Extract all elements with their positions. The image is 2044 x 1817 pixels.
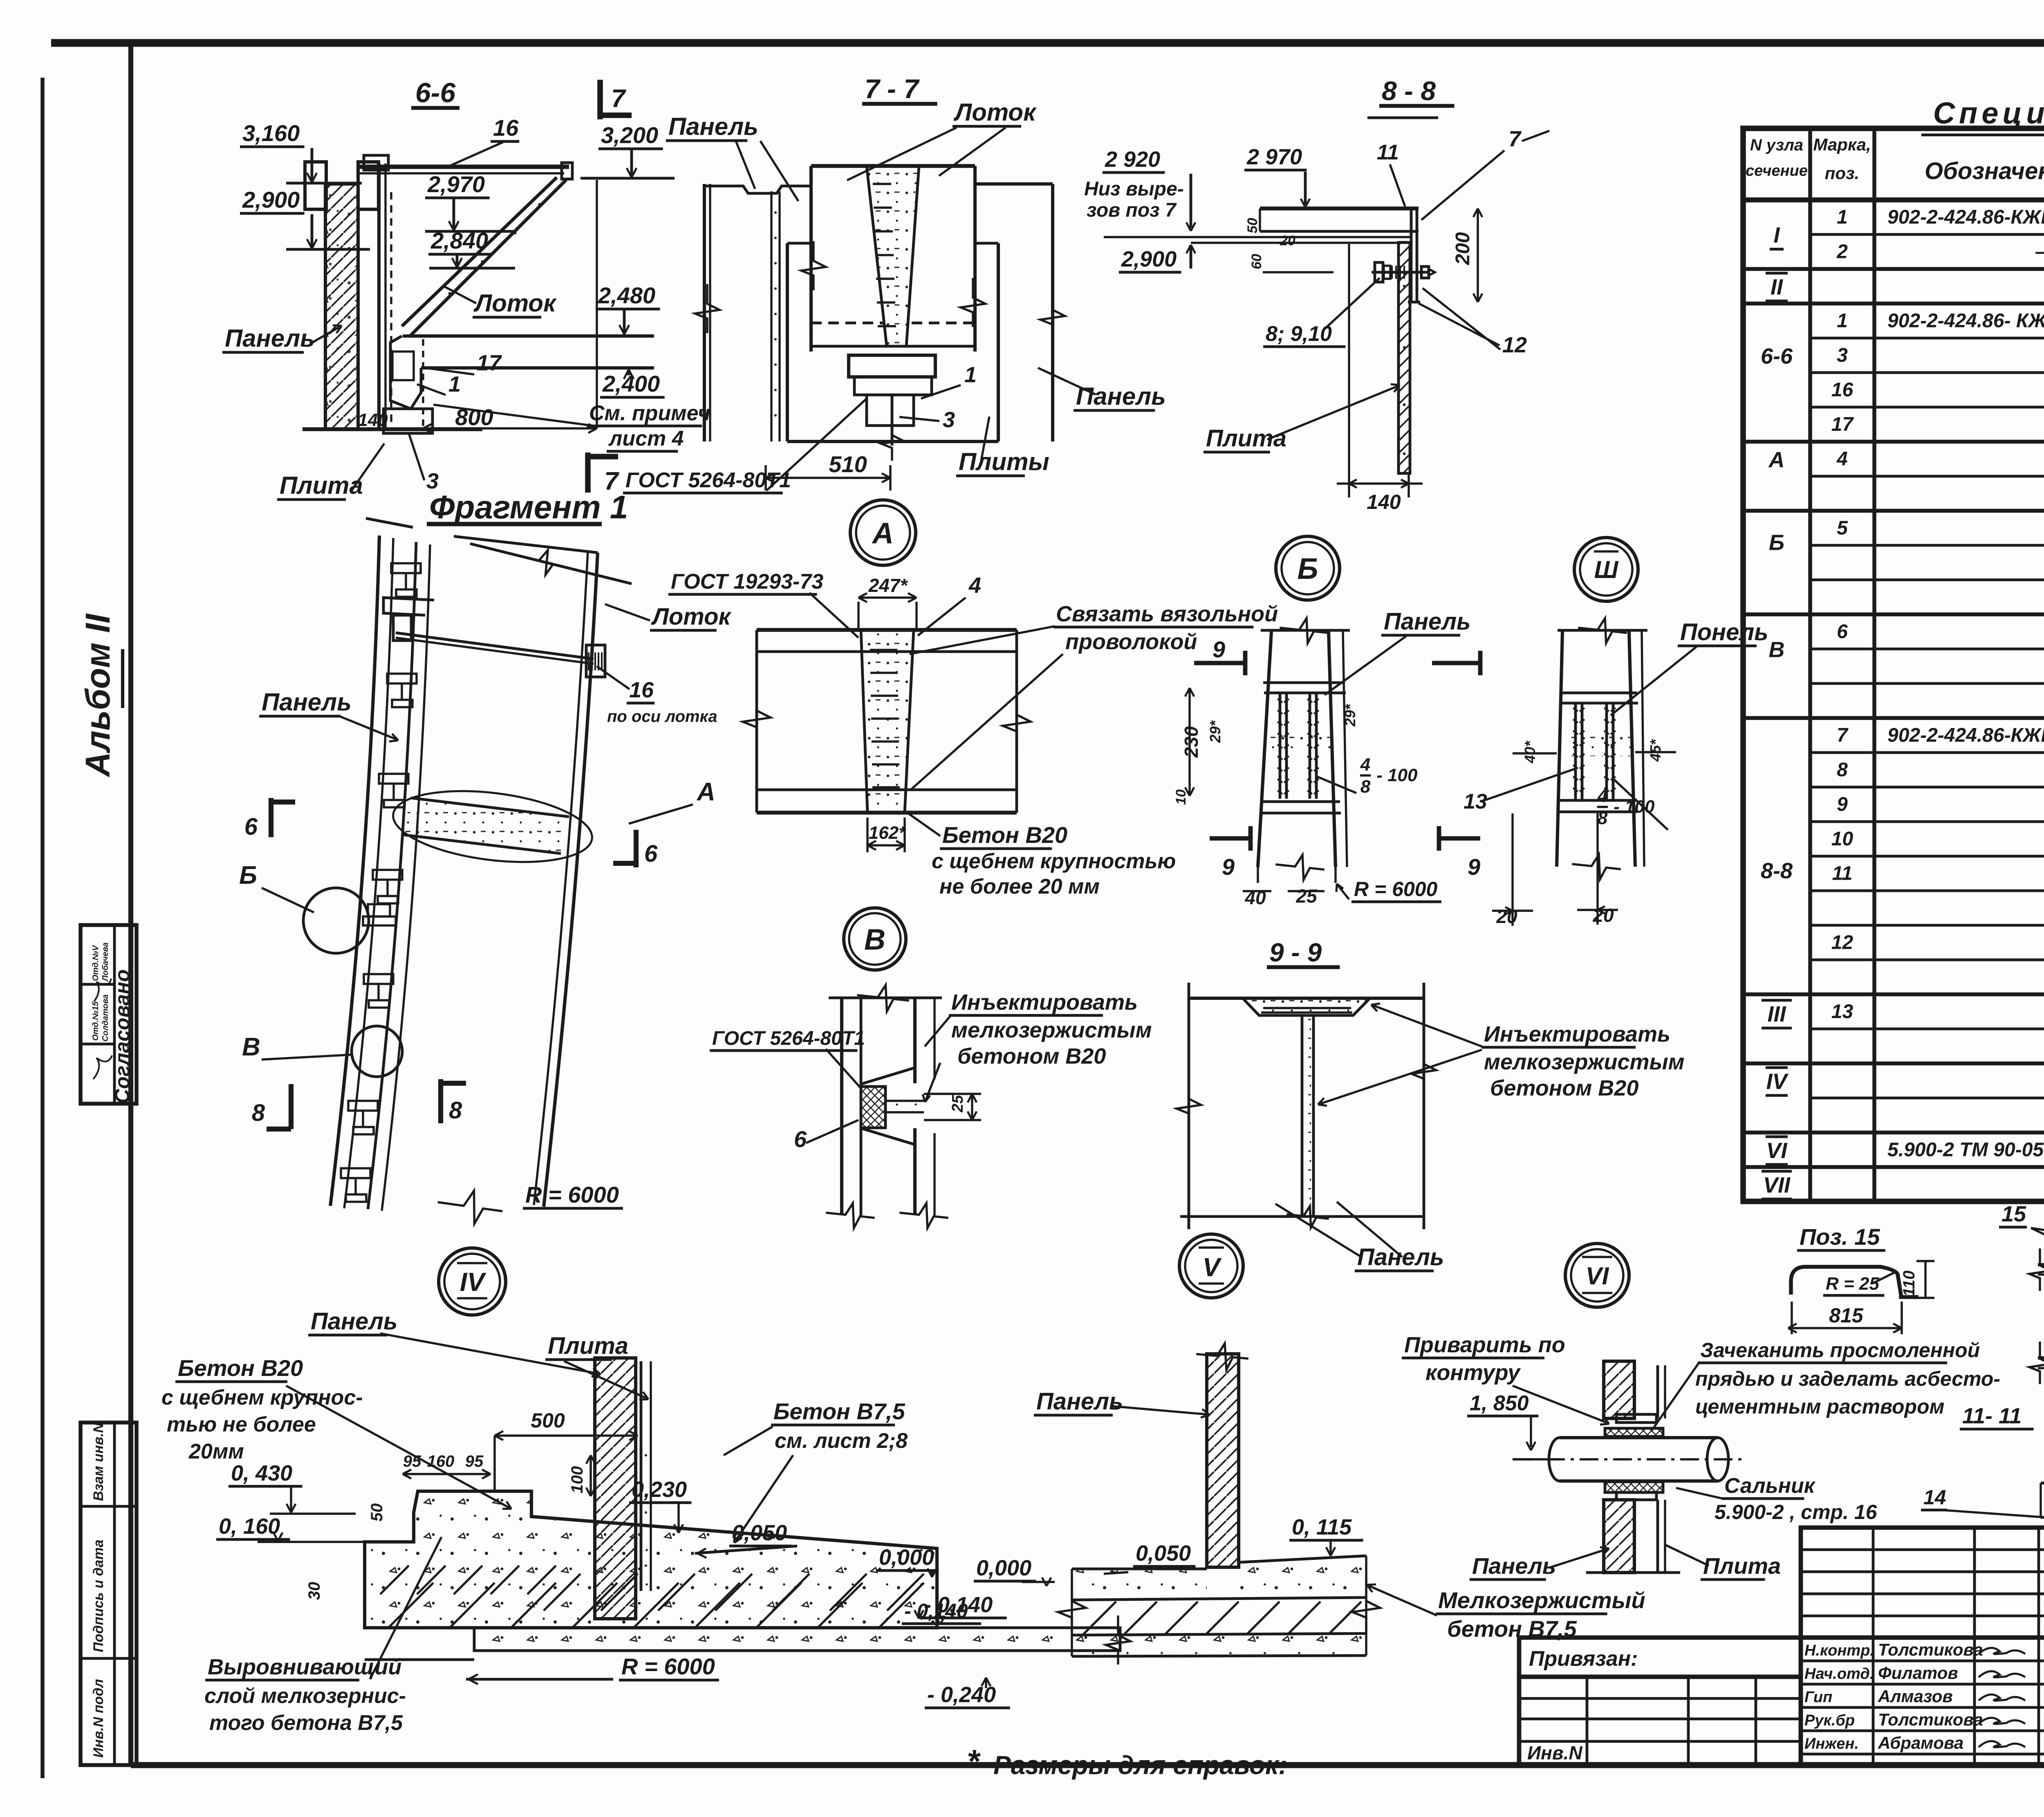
svg-text:Алмазов: Алмазов bbox=[1878, 1687, 1953, 1706]
svg-text:230: 230 bbox=[1181, 726, 1202, 758]
svg-text:9: 9 bbox=[1468, 854, 1480, 880]
svg-text:6-6: 6-6 bbox=[415, 77, 456, 108]
svg-text:2,900: 2,900 bbox=[242, 187, 300, 213]
svg-text:2,900: 2,900 bbox=[1121, 247, 1177, 271]
svg-text:Толстикова: Толстикова bbox=[1878, 1640, 1983, 1659]
svg-text:16: 16 bbox=[629, 678, 654, 702]
svg-text:мелкозержистым: мелкозержистым bbox=[951, 1018, 1152, 1042]
svg-text:25: 25 bbox=[949, 1095, 966, 1113]
svg-text:11: 11 bbox=[1832, 863, 1853, 885]
svg-text:VI: VI bbox=[1766, 1138, 1787, 1163]
svg-text:100: 100 bbox=[568, 1466, 586, 1494]
svg-text:8 - 8: 8 - 8 bbox=[1382, 76, 1436, 106]
svg-text:поз.: поз. bbox=[1825, 164, 1859, 183]
svg-text:тью не более: тью не более bbox=[167, 1413, 316, 1436]
svg-text:29*: 29* bbox=[1207, 720, 1224, 743]
svg-text:16: 16 bbox=[493, 115, 519, 141]
svg-text:R = 6000: R = 6000 bbox=[621, 1653, 715, 1679]
svg-text:Панель: Панель bbox=[262, 688, 352, 716]
svg-text:ГОСТ 5264-80Т1: ГОСТ 5264-80Т1 bbox=[625, 468, 791, 492]
svg-text:Поз. 15: Поз. 15 bbox=[1800, 1224, 1880, 1250]
svg-text:N узла: N узла bbox=[1750, 136, 1803, 154]
svg-text:3: 3 bbox=[1837, 345, 1848, 366]
svg-text:0,050: 0,050 bbox=[1136, 1541, 1191, 1566]
svg-text:R = 6000: R = 6000 bbox=[1354, 878, 1438, 901]
svg-text:Взам инв.N: Взам инв.N bbox=[91, 1422, 106, 1501]
svg-text:Связать вязольной: Связать вязольной bbox=[1056, 602, 1278, 626]
svg-text:Б: Б bbox=[1298, 553, 1318, 585]
svg-text:мелкозержистым: мелкозержистым bbox=[1484, 1050, 1685, 1074]
svg-text:11- 11: 11- 11 bbox=[1962, 1404, 2022, 1428]
svg-text:247*: 247* bbox=[868, 575, 908, 596]
svg-text:того бетона В7,5: того бетона В7,5 bbox=[209, 1711, 403, 1735]
svg-text:4: 4 bbox=[968, 573, 981, 598]
svg-text:110: 110 bbox=[1900, 1270, 1918, 1297]
svg-text:Панель: Панель bbox=[225, 325, 315, 352]
svg-text:10: 10 bbox=[1831, 828, 1853, 850]
svg-text:2 970: 2 970 bbox=[1246, 145, 1302, 169]
svg-text:60: 60 bbox=[1249, 254, 1264, 269]
svg-text:- 0,140: - 0,140 bbox=[904, 1600, 968, 1622]
svg-text:Отд.№15: Отд.№15 bbox=[91, 1001, 100, 1041]
svg-text:Плита: Плита bbox=[1206, 425, 1286, 452]
svg-text:ГОСТ 5264-80Т1: ГОСТ 5264-80Т1 bbox=[712, 1028, 865, 1049]
svg-text:ГОСТ 19293-73: ГОСТ 19293-73 bbox=[671, 570, 823, 594]
svg-text:20: 20 bbox=[1496, 906, 1517, 927]
svg-text:6: 6 bbox=[794, 1126, 807, 1152]
svg-text:Инв.N: Инв.N bbox=[1527, 1742, 1582, 1763]
svg-text:7 - 7: 7 - 7 bbox=[865, 74, 920, 104]
svg-text:Сальник: Сальник bbox=[1724, 1474, 1816, 1498]
svg-text:VI: VI bbox=[1586, 1262, 1609, 1290]
svg-text:I: I bbox=[1773, 223, 1780, 248]
svg-text:17: 17 bbox=[1831, 414, 1854, 435]
svg-text:7: 7 bbox=[1508, 127, 1522, 151]
svg-text:3,160: 3,160 bbox=[242, 120, 300, 146]
svg-text:См. примеч: См. примеч bbox=[589, 401, 710, 425]
svg-text:сечение: сечение bbox=[1746, 162, 1808, 179]
svg-text:7: 7 bbox=[611, 85, 626, 113]
svg-text:6: 6 bbox=[244, 813, 258, 840]
svg-text:Лоток: Лоток bbox=[953, 99, 1037, 126]
svg-text:Н.контр.: Н.контр. bbox=[1804, 1642, 1874, 1659]
svg-text:Приварить по: Приварить по bbox=[1404, 1333, 1565, 1357]
svg-text:Бетон В20: Бетон В20 bbox=[178, 1355, 303, 1381]
svg-text:Б: Б bbox=[1769, 531, 1784, 555]
svg-text:13: 13 bbox=[1831, 1001, 1853, 1023]
svg-text:Альбом II: Альбом II bbox=[78, 613, 117, 777]
svg-text:7: 7 bbox=[1837, 725, 1849, 746]
svg-text:8: 8 bbox=[1598, 808, 1608, 828]
svg-text:Плита: Плита bbox=[280, 472, 363, 499]
svg-text:6: 6 bbox=[644, 840, 658, 867]
svg-text:4: 4 bbox=[1360, 755, 1370, 775]
svg-text:слой мелкозернис-: слой мелкозернис- bbox=[204, 1684, 406, 1708]
svg-text:с щебнем крупнос-: с щебнем крупнос- bbox=[161, 1386, 363, 1409]
svg-text:В: В bbox=[864, 923, 885, 956]
svg-text:1: 1 bbox=[1837, 206, 1848, 228]
svg-text:6: 6 bbox=[1837, 621, 1848, 643]
svg-text:0, 115: 0, 115 bbox=[1292, 1515, 1352, 1539]
svg-text:160: 160 bbox=[427, 1452, 455, 1470]
svg-text:12: 12 bbox=[1502, 333, 1527, 357]
svg-text:8: 8 bbox=[1837, 759, 1848, 781]
svg-text:20мм: 20мм bbox=[188, 1440, 244, 1463]
svg-text:45*: 45* bbox=[1647, 739, 1664, 762]
svg-text:Бетон В7,5: Бетон В7,5 bbox=[773, 1398, 905, 1424]
svg-text:2: 2 bbox=[1836, 241, 1848, 263]
svg-text:Низ выре-: Низ выре- bbox=[1084, 178, 1184, 200]
svg-text:8: 8 bbox=[1360, 777, 1371, 797]
svg-text:Панель: Панель bbox=[1036, 1388, 1123, 1415]
svg-text:IV: IV bbox=[460, 1267, 487, 1297]
svg-text:902-2-424.86-КЖИ-6.100: 902-2-424.86-КЖИ-6.100 bbox=[1887, 725, 2044, 746]
svg-text:902-2-424.86-КЖИ-8.100: 902-2-424.86-КЖИ-8.100 bbox=[1887, 206, 2044, 228]
svg-text:0,000: 0,000 bbox=[879, 1545, 934, 1570]
svg-text:5: 5 bbox=[1837, 518, 1848, 539]
svg-text:11: 11 bbox=[1377, 141, 1399, 164]
svg-text:Рук.бр: Рук.бр bbox=[1804, 1712, 1855, 1729]
svg-text:20: 20 bbox=[1280, 233, 1295, 249]
svg-text:В: В bbox=[1769, 638, 1785, 662]
svg-text:бетон В7,5: бетон В7,5 bbox=[1447, 1616, 1577, 1642]
svg-text:1, 850: 1, 850 bbox=[1470, 1391, 1529, 1415]
svg-text:500: 500 bbox=[531, 1409, 565, 1432]
svg-text:проволокой: проволокой bbox=[1065, 630, 1197, 654]
svg-text:с щебнем крупностью: с щебнем крупностью bbox=[932, 849, 1176, 873]
svg-text:*: * bbox=[968, 1743, 981, 1779]
svg-text:Панель: Панель bbox=[1357, 1244, 1444, 1270]
svg-text:2,970: 2,970 bbox=[427, 171, 485, 197]
svg-text:3: 3 bbox=[943, 408, 955, 432]
svg-text:Спецификация элементов: Спецификация элементов bbox=[1933, 96, 2044, 130]
svg-text:Марка,: Марка, bbox=[1813, 135, 1871, 154]
svg-text:162*: 162* bbox=[869, 823, 906, 843]
svg-text:6-6: 6-6 bbox=[1761, 344, 1793, 368]
svg-text:бетоном В20: бетоном В20 bbox=[1490, 1076, 1638, 1100]
svg-text:30: 30 bbox=[305, 1582, 323, 1600]
svg-text:Панель: Панель bbox=[1472, 1553, 1556, 1579]
svg-text:14: 14 bbox=[1923, 1486, 1946, 1509]
svg-text:Филатов: Филатов bbox=[1878, 1663, 1958, 1683]
svg-text:0, 430: 0, 430 bbox=[231, 1461, 292, 1485]
svg-text:15: 15 bbox=[2001, 1202, 2026, 1226]
svg-text:200: 200 bbox=[1452, 232, 1474, 265]
svg-text:Б: Б bbox=[239, 861, 257, 889]
svg-text:–7.100-01: –7.100-01 bbox=[2035, 241, 2044, 263]
svg-text:510: 510 bbox=[829, 451, 867, 477]
svg-text:Панель: Панель bbox=[1384, 608, 1471, 635]
svg-text:V: V bbox=[1203, 1252, 1222, 1282]
svg-text:7: 7 bbox=[604, 467, 619, 495]
svg-text:Гип: Гип bbox=[1804, 1689, 1832, 1706]
svg-text:50: 50 bbox=[368, 1503, 386, 1522]
svg-text:140: 140 bbox=[358, 410, 388, 430]
svg-text:9: 9 bbox=[1837, 794, 1848, 816]
svg-text:Размеры для справок:: Размеры для справок: bbox=[993, 1750, 1287, 1780]
svg-text:2 920: 2 920 bbox=[1105, 147, 1160, 172]
svg-text:Отд.№V: Отд.№V bbox=[91, 945, 100, 981]
svg-text:Бетон В20: Бетон В20 bbox=[942, 822, 1067, 848]
svg-text:А: А bbox=[696, 778, 715, 806]
svg-text:1: 1 bbox=[448, 372, 461, 397]
svg-text:В: В bbox=[242, 1033, 260, 1061]
svg-text:Ш: Ш bbox=[1594, 556, 1619, 583]
svg-text:95: 95 bbox=[465, 1452, 484, 1470]
svg-text:1: 1 bbox=[1837, 310, 1848, 332]
svg-text:зов поз 7: зов поз 7 bbox=[1087, 199, 1177, 221]
svg-text:прядью и заделать асбесто-: прядью и заделать асбесто- bbox=[1695, 1367, 2000, 1390]
svg-text:Панель: Панель bbox=[311, 1308, 398, 1335]
svg-text:R = 25: R = 25 bbox=[1826, 1274, 1879, 1294]
svg-text:Зачеканить просмоленной: Зачеканить просмоленной bbox=[1700, 1339, 1980, 1362]
svg-text:Привязан:: Привязан: bbox=[1529, 1647, 1638, 1671]
svg-text:5.900-2 ТМ 90-05: 5.900-2 ТМ 90-05 bbox=[1887, 1139, 2044, 1161]
svg-text:VII: VII bbox=[1763, 1173, 1791, 1197]
svg-text:Нач.отд.: Нач.отд. bbox=[1804, 1665, 1874, 1683]
svg-text:17: 17 bbox=[477, 351, 502, 375]
svg-text:2,480: 2,480 bbox=[598, 282, 655, 308]
svg-text:по оси лотка: по оси лотка bbox=[607, 708, 717, 726]
svg-text:IV: IV bbox=[1766, 1069, 1788, 1094]
svg-text:Панель: Панель bbox=[1076, 383, 1166, 410]
svg-text:0,230: 0,230 bbox=[632, 1477, 687, 1502]
svg-text:Лоток: Лоток bbox=[651, 603, 732, 630]
svg-text:контуру: контуру bbox=[1425, 1360, 1521, 1385]
svg-text:Мелкозержистый: Мелкозержистый bbox=[1438, 1587, 1645, 1613]
svg-text:Плита: Плита bbox=[548, 1333, 628, 1359]
svg-text:4: 4 bbox=[1597, 786, 1607, 806]
svg-text:2,840: 2,840 bbox=[430, 228, 488, 253]
svg-text:см. лист 2;8: см. лист 2;8 bbox=[775, 1429, 908, 1453]
svg-text:9 - 9: 9 - 9 bbox=[1269, 938, 1322, 967]
svg-text:815: 815 bbox=[1829, 1304, 1864, 1327]
svg-text:II: II bbox=[1771, 275, 1783, 299]
svg-text:12: 12 bbox=[1831, 932, 1853, 954]
svg-text:29*: 29* bbox=[1342, 703, 1358, 727]
svg-text:16: 16 bbox=[1831, 379, 1853, 401]
svg-text:Понель: Понель bbox=[1680, 619, 1768, 645]
svg-text:1: 1 bbox=[964, 363, 977, 387]
svg-text:8-8: 8-8 bbox=[1761, 858, 1793, 883]
svg-text:Плиты: Плиты bbox=[959, 448, 1049, 475]
svg-text:Инв.N подл: Инв.N подл bbox=[91, 1679, 106, 1758]
svg-text:5.900-2 , стр. 16: 5.900-2 , стр. 16 bbox=[1715, 1501, 1878, 1524]
svg-text:А: А bbox=[1768, 448, 1785, 472]
svg-text:3,200: 3,200 bbox=[601, 122, 658, 148]
svg-text:140: 140 bbox=[1367, 491, 1401, 513]
svg-text:Плита: Плита bbox=[1703, 1553, 1781, 1579]
svg-text:10: 10 bbox=[1173, 789, 1189, 805]
svg-text:Согласовано: Согласовано bbox=[111, 969, 134, 1104]
svg-text:III: III bbox=[1767, 1002, 1786, 1026]
svg-text:А: А bbox=[872, 517, 894, 550]
svg-text:Инжен.: Инжен. bbox=[1804, 1735, 1859, 1752]
svg-text:бетоном В20: бетоном В20 bbox=[957, 1044, 1106, 1069]
svg-text:4: 4 bbox=[1836, 448, 1848, 470]
svg-text:Инъектировать: Инъектировать bbox=[1484, 1022, 1670, 1046]
svg-text:Солдатова: Солдатова bbox=[101, 995, 110, 1042]
svg-text:9: 9 bbox=[1222, 854, 1235, 880]
svg-text:9: 9 bbox=[1213, 636, 1225, 662]
svg-text:лист 4: лист 4 bbox=[608, 427, 684, 450]
svg-text:Лоток: Лоток bbox=[473, 289, 557, 317]
svg-text:50: 50 bbox=[1245, 218, 1260, 233]
svg-text:40*: 40* bbox=[1522, 740, 1538, 764]
svg-text:8: 8 bbox=[252, 1100, 265, 1126]
svg-text:8; 9,10: 8; 9,10 bbox=[1266, 322, 1332, 346]
svg-text:цементным раствором: цементным раствором bbox=[1695, 1395, 1945, 1418]
svg-text:Подпись и дата: Подпись и дата bbox=[91, 1539, 106, 1652]
svg-text:Панель: Панель bbox=[668, 113, 758, 140]
svg-text:Инъектировать: Инъектировать bbox=[951, 990, 1138, 1015]
svg-text:Толстикова: Толстикова bbox=[1878, 1710, 1983, 1729]
svg-text:Абрамова: Абрамова bbox=[1878, 1733, 1963, 1752]
svg-text:8: 8 bbox=[449, 1097, 462, 1124]
svg-text:не более 20 мм: не более 20 мм bbox=[939, 875, 1100, 898]
svg-text:- 100: - 100 bbox=[1376, 765, 1418, 785]
svg-text:Фрагмент 1: Фрагмент 1 bbox=[429, 489, 628, 525]
svg-text:0, 160: 0, 160 bbox=[219, 1514, 280, 1539]
svg-text:0,000: 0,000 bbox=[976, 1556, 1031, 1580]
svg-text:902-2-424.86- КЖИ-8.100: 902-2-424.86- КЖИ-8.100 bbox=[1887, 310, 2044, 332]
svg-text:25: 25 bbox=[1295, 885, 1318, 907]
svg-text:Лобачева: Лобачева bbox=[101, 943, 110, 982]
svg-text:R = 6000: R = 6000 bbox=[525, 1182, 619, 1208]
svg-text:Обозначение: Обозначение bbox=[1925, 158, 2044, 184]
